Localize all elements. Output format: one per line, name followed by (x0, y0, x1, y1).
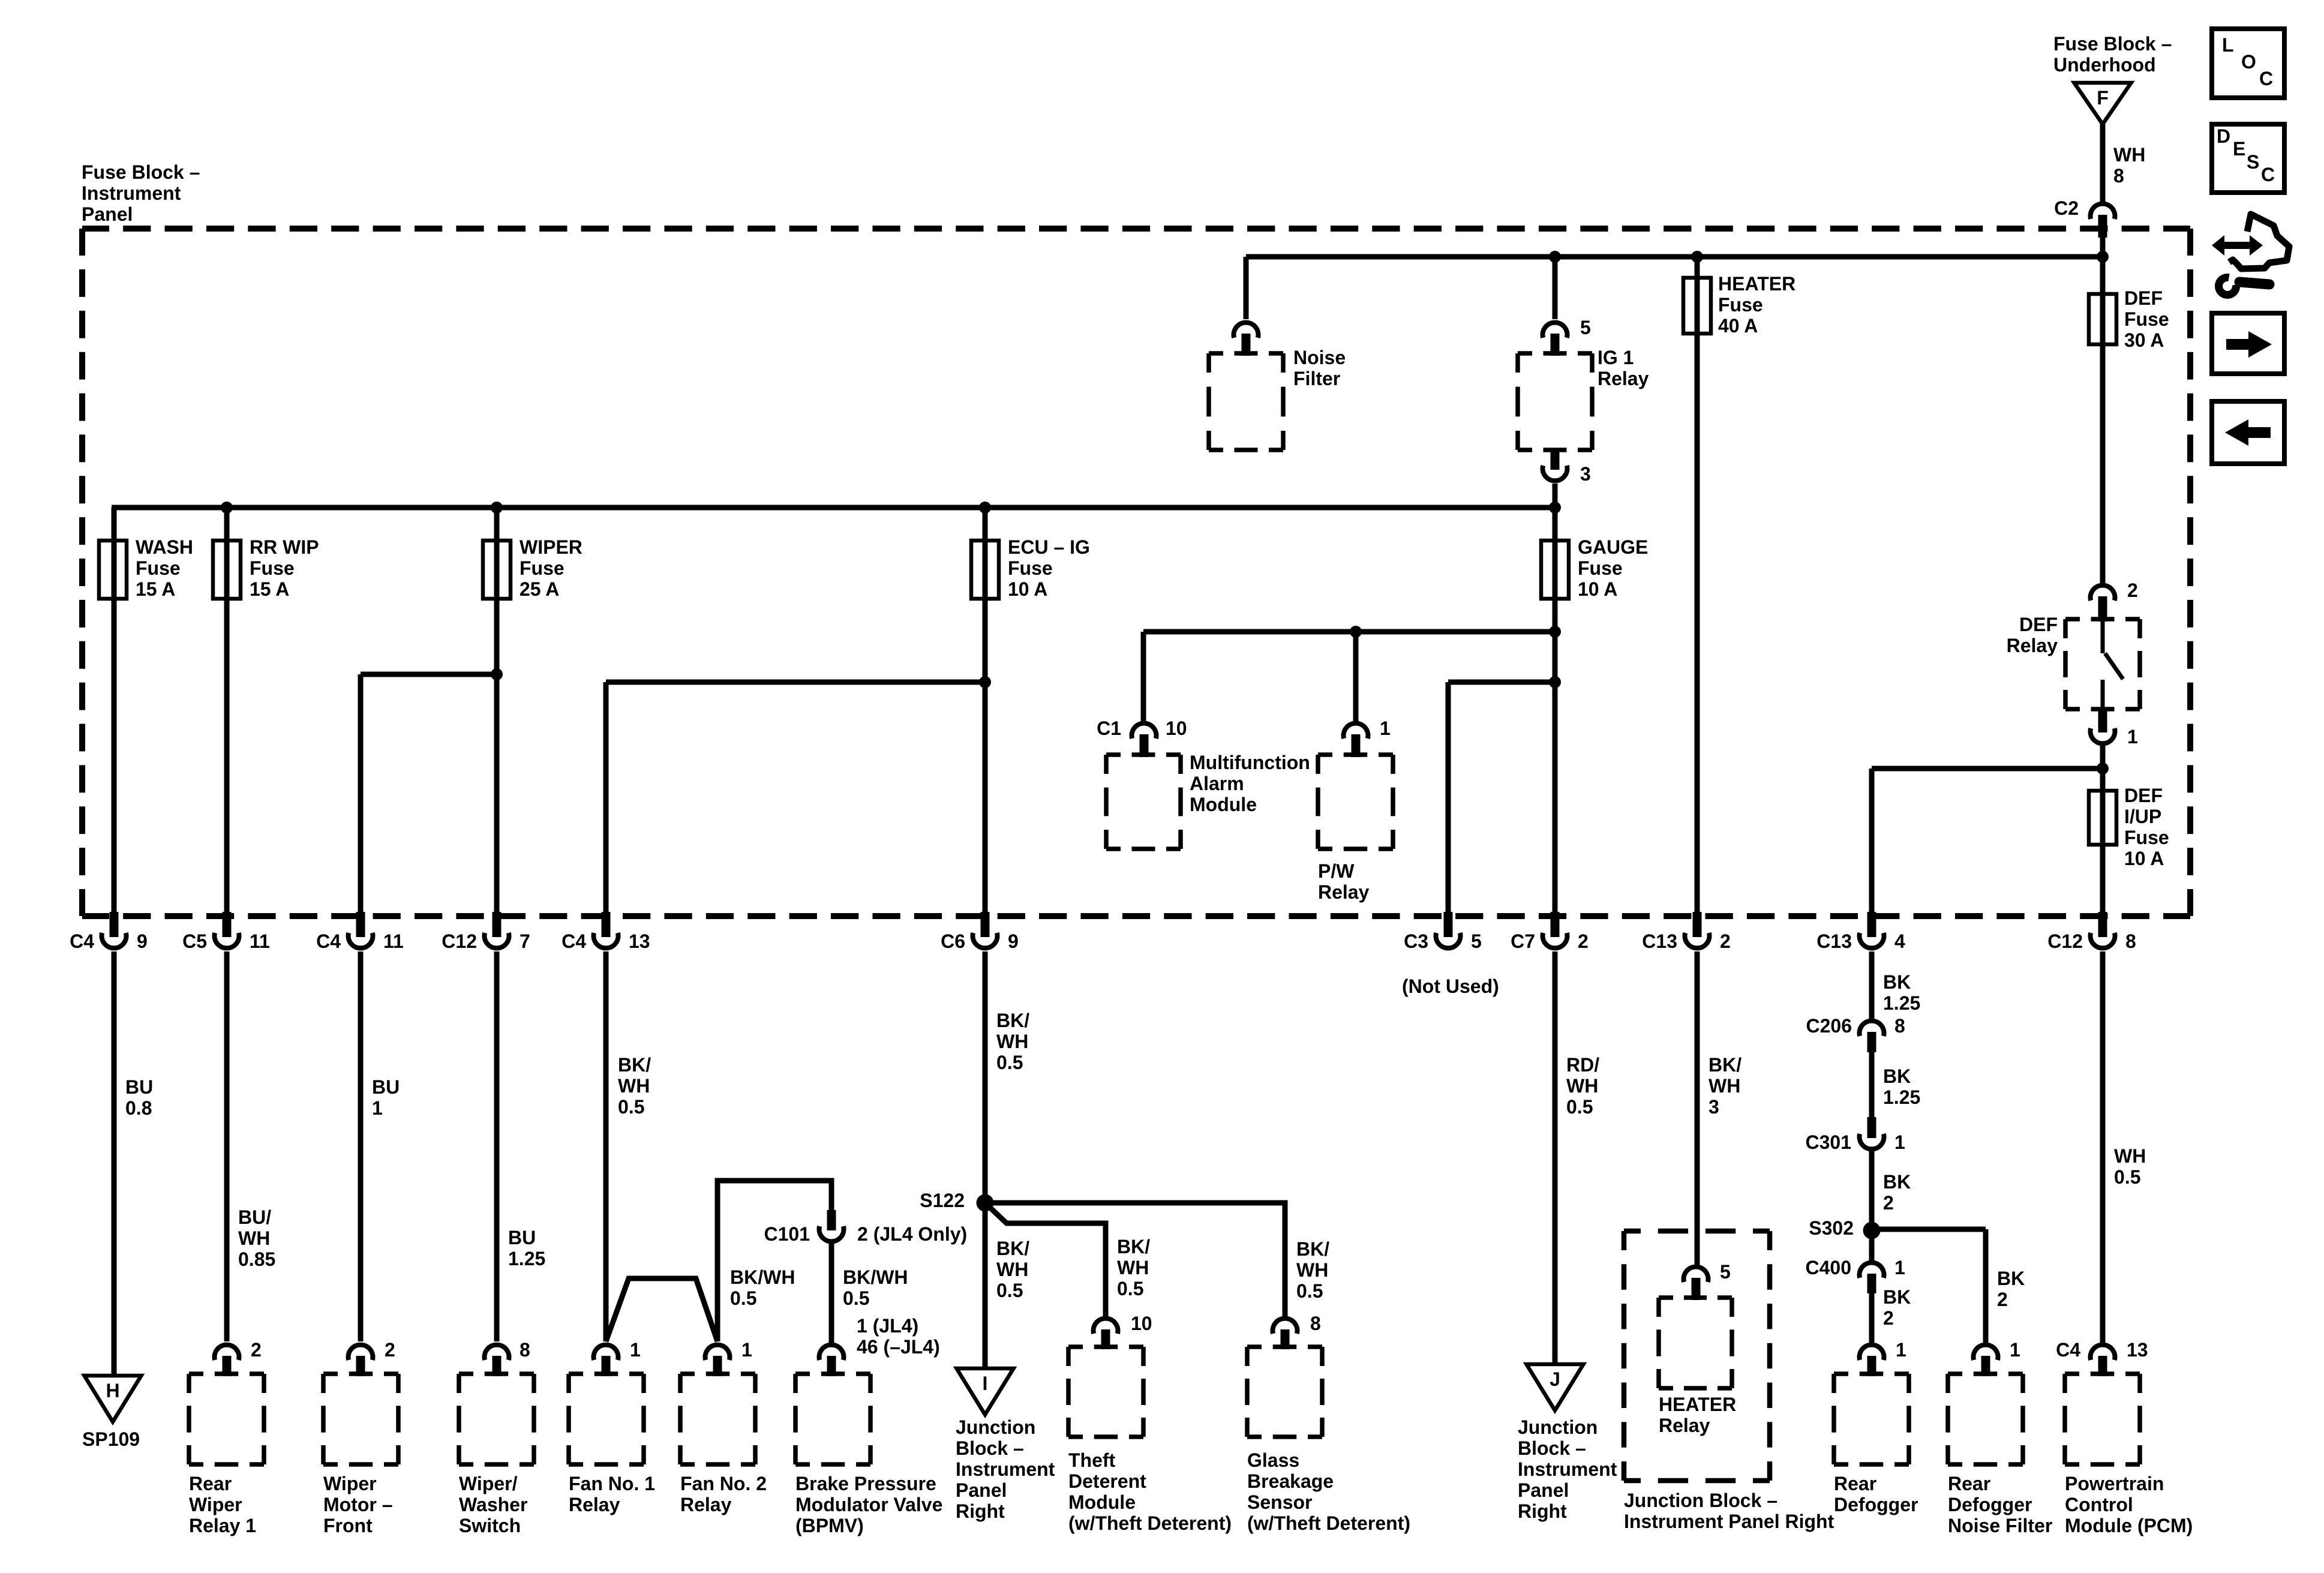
svg-text:0.5: 0.5 (730, 1287, 756, 1309)
svg-text:Multifunction: Multifunction (1190, 752, 1310, 773)
svg-text:15 A: 15 A (250, 578, 289, 600)
svg-text:Control: Control (2065, 1494, 2133, 1515)
svg-text:Fuse: Fuse (2124, 308, 2169, 330)
svg-text:8: 8 (1310, 1313, 1321, 1334)
svg-text:HEATER: HEATER (1659, 1394, 1736, 1415)
svg-text:DEF: DEF (2124, 785, 2163, 806)
svg-text:1: 1 (2127, 726, 2138, 748)
svg-text:S302: S302 (1809, 1217, 1854, 1239)
svg-text:Relay: Relay (1318, 881, 1370, 903)
svg-text:Washer: Washer (459, 1494, 527, 1515)
svg-text:2: 2 (1578, 930, 1589, 952)
svg-text:WH: WH (2113, 144, 2145, 166)
svg-text:Panel: Panel (956, 1479, 1007, 1501)
svg-text:BK/: BK/ (996, 1010, 1029, 1031)
svg-text:WH: WH (1709, 1075, 1740, 1097)
svg-text:Module: Module (1190, 794, 1257, 815)
svg-text:1: 1 (1896, 1339, 1906, 1361)
svg-text:Front: Front (323, 1515, 373, 1536)
svg-text:BK/: BK/ (996, 1238, 1029, 1259)
svg-text:2 (JL4 Only): 2 (JL4 Only) (857, 1223, 967, 1245)
svg-text:Relay: Relay (1598, 368, 1649, 389)
svg-text:0.5: 0.5 (2114, 1166, 2140, 1188)
svg-text:1 (JL4): 1 (JL4) (857, 1315, 918, 1337)
svg-text:Instrument: Instrument (1518, 1458, 1617, 1480)
svg-text:Junction Block –: Junction Block – (1624, 1490, 1777, 1511)
svg-text:WH: WH (2114, 1145, 2146, 1167)
svg-text:Right: Right (956, 1500, 1005, 1522)
svg-text:2: 2 (1720, 930, 1731, 952)
svg-text:1.25: 1.25 (508, 1248, 545, 1269)
svg-text:(Not Used): (Not Used) (1402, 975, 1499, 997)
svg-text:C1: C1 (1097, 718, 1121, 739)
svg-text:S: S (2247, 151, 2259, 173)
svg-text:Relay: Relay (1659, 1415, 1710, 1436)
svg-text:C: C (2261, 164, 2275, 185)
svg-text:WH: WH (1566, 1075, 1598, 1097)
svg-text:Fuse: Fuse (136, 557, 181, 579)
svg-text:Relay: Relay (680, 1494, 732, 1515)
svg-text:Defogger: Defogger (1948, 1494, 2032, 1515)
svg-text:WH: WH (996, 1031, 1028, 1052)
svg-text:Fuse Block –: Fuse Block – (2053, 33, 2172, 55)
svg-text:HEATER: HEATER (1718, 273, 1795, 295)
svg-text:Powertrain: Powertrain (2065, 1473, 2164, 1494)
svg-text:C13: C13 (1642, 930, 1677, 952)
svg-text:C5: C5 (182, 930, 207, 952)
svg-text:Theft: Theft (1068, 1449, 1116, 1471)
svg-text:Underhood: Underhood (2053, 54, 2156, 76)
svg-text:2: 2 (1883, 1307, 1894, 1329)
svg-text:RD/: RD/ (1566, 1054, 1599, 1076)
svg-text:BK/: BK/ (1709, 1054, 1742, 1076)
svg-text:30 A: 30 A (2124, 329, 2164, 351)
svg-text:I: I (983, 1373, 988, 1394)
svg-text:0.5: 0.5 (1566, 1096, 1593, 1118)
svg-text:3: 3 (1580, 463, 1591, 485)
svg-text:C301: C301 (1806, 1131, 1852, 1153)
svg-text:S122: S122 (920, 1190, 965, 1211)
svg-text:2: 2 (1997, 1289, 2008, 1310)
svg-text:RR WIP: RR WIP (250, 536, 319, 558)
svg-text:C2: C2 (2054, 197, 2079, 219)
svg-text:BK/WH: BK/WH (730, 1266, 795, 1288)
svg-text:Motor –: Motor – (323, 1494, 393, 1515)
svg-text:Relay 1: Relay 1 (189, 1515, 256, 1536)
svg-text:Brake Pressure: Brake Pressure (795, 1473, 936, 1494)
svg-text:0.5: 0.5 (996, 1052, 1023, 1073)
svg-text:Instrument Panel Right: Instrument Panel Right (1624, 1511, 1834, 1532)
svg-text:C12: C12 (442, 930, 477, 952)
svg-text:Fuse: Fuse (250, 557, 295, 579)
svg-text:Block –: Block – (956, 1437, 1024, 1459)
svg-text:WH: WH (1296, 1259, 1328, 1281)
svg-text:5: 5 (1720, 1261, 1731, 1283)
svg-text:40 A: 40 A (1718, 315, 1758, 337)
svg-text:Panel: Panel (1518, 1479, 1569, 1501)
svg-text:1: 1 (1894, 1131, 1905, 1153)
svg-text:2: 2 (2127, 580, 2138, 601)
svg-text:0.5: 0.5 (1296, 1280, 1323, 1302)
svg-text:ECU – IG: ECU – IG (1008, 536, 1090, 558)
svg-text:2: 2 (251, 1339, 262, 1361)
svg-text:O: O (2241, 51, 2256, 73)
svg-text:Fuse Block –: Fuse Block – (82, 161, 200, 183)
svg-text:BU: BU (125, 1076, 153, 1098)
svg-text:Junction: Junction (1518, 1416, 1598, 1438)
svg-text:BK/: BK/ (1296, 1238, 1329, 1260)
svg-text:Modulator Valve: Modulator Valve (795, 1494, 942, 1515)
svg-text:BK: BK (1997, 1268, 2025, 1289)
svg-text:Fuse: Fuse (1578, 557, 1623, 579)
svg-text:10: 10 (1131, 1313, 1152, 1334)
svg-text:C7: C7 (1511, 930, 1535, 952)
svg-text:Instrument: Instrument (82, 182, 181, 204)
svg-text:I/UP: I/UP (2124, 806, 2161, 827)
svg-text:BK: BK (1883, 1286, 1911, 1308)
svg-text:9: 9 (137, 930, 148, 952)
svg-text:8: 8 (2125, 930, 2136, 952)
svg-text:Defogger: Defogger (1834, 1494, 1918, 1515)
svg-text:BU/: BU/ (238, 1206, 271, 1228)
svg-text:C206: C206 (1806, 1015, 1852, 1037)
svg-text:WH: WH (996, 1259, 1028, 1280)
svg-text:BK/: BK/ (618, 1054, 651, 1076)
svg-text:C4: C4 (316, 930, 341, 952)
svg-text:C101: C101 (764, 1223, 810, 1245)
svg-text:11: 11 (383, 930, 404, 952)
svg-text:10: 10 (1166, 718, 1187, 739)
svg-text:E: E (2233, 138, 2245, 160)
svg-text:4: 4 (1894, 930, 1905, 952)
svg-text:C4: C4 (70, 930, 94, 952)
svg-text:8: 8 (1894, 1015, 1905, 1037)
svg-text:11: 11 (250, 930, 270, 952)
svg-text:0.85: 0.85 (238, 1248, 275, 1270)
svg-text:Relay: Relay (2007, 635, 2058, 656)
svg-text:Rear: Rear (1834, 1473, 1876, 1494)
svg-text:BK: BK (1883, 971, 1911, 993)
svg-text:Fuse: Fuse (1008, 557, 1053, 579)
svg-text:8: 8 (2113, 165, 2124, 187)
svg-text:Panel: Panel (82, 203, 133, 225)
svg-text:0.5: 0.5 (618, 1096, 644, 1118)
svg-text:WIPER: WIPER (520, 536, 582, 558)
svg-text:F: F (2097, 87, 2109, 109)
svg-text:Fuse: Fuse (1718, 294, 1763, 316)
svg-text:2: 2 (385, 1339, 395, 1361)
svg-text:5: 5 (1471, 930, 1482, 952)
svg-text:Breakage: Breakage (1247, 1470, 1334, 1492)
svg-text:C12: C12 (2047, 930, 2083, 952)
svg-text:BK: BK (1883, 1065, 1911, 1087)
svg-text:Switch: Switch (459, 1515, 521, 1536)
svg-text:(w/Theft Deterent): (w/Theft Deterent) (1068, 1512, 1232, 1534)
svg-text:Instrument: Instrument (956, 1458, 1055, 1480)
svg-text:Fan No. 2: Fan No. 2 (680, 1473, 767, 1494)
svg-text:IG 1: IG 1 (1598, 347, 1634, 368)
svg-text:Deterent: Deterent (1068, 1470, 1146, 1492)
svg-text:WH: WH (238, 1227, 270, 1249)
svg-text:C4: C4 (2056, 1339, 2080, 1361)
svg-text:Rear: Rear (189, 1473, 232, 1494)
svg-text:Right: Right (1518, 1500, 1567, 1522)
svg-text:Sensor: Sensor (1247, 1491, 1312, 1513)
svg-text:BK/: BK/ (1117, 1236, 1150, 1257)
svg-text:GAUGE: GAUGE (1578, 536, 1648, 558)
svg-text:1.25: 1.25 (1883, 992, 1920, 1014)
svg-text:0.5: 0.5 (996, 1280, 1023, 1301)
svg-text:C: C (2259, 68, 2273, 89)
svg-text:1: 1 (1380, 718, 1391, 739)
svg-text:Relay: Relay (569, 1494, 620, 1515)
svg-text:8: 8 (520, 1339, 530, 1361)
svg-text:L: L (2222, 34, 2234, 56)
svg-text:13: 13 (2127, 1339, 2148, 1361)
svg-text:3: 3 (1709, 1096, 1719, 1118)
svg-text:15 A: 15 A (136, 578, 175, 600)
svg-text:10 A: 10 A (1578, 578, 1617, 600)
svg-text:2: 2 (1883, 1192, 1894, 1214)
svg-text:Fuse: Fuse (520, 557, 565, 579)
svg-text:1: 1 (630, 1339, 641, 1361)
svg-text:H: H (106, 1380, 119, 1401)
svg-text:Fuse: Fuse (2124, 827, 2169, 848)
svg-text:Filter: Filter (1293, 368, 1340, 389)
svg-text:WH: WH (1117, 1257, 1149, 1278)
svg-text:Wiper: Wiper (189, 1494, 242, 1515)
svg-text:9: 9 (1008, 930, 1019, 952)
svg-text:Wiper: Wiper (323, 1473, 377, 1494)
svg-text:0.8: 0.8 (125, 1097, 152, 1119)
svg-text:Alarm: Alarm (1190, 773, 1244, 794)
svg-text:Fan No. 1: Fan No. 1 (569, 1473, 655, 1494)
svg-text:BU: BU (372, 1076, 400, 1098)
svg-text:46 (–JL4): 46 (–JL4) (857, 1336, 940, 1358)
svg-text:1.25: 1.25 (1883, 1086, 1920, 1108)
svg-text:Rear: Rear (1948, 1473, 1990, 1494)
svg-text:10 A: 10 A (1008, 578, 1047, 600)
svg-text:D: D (2217, 125, 2230, 147)
svg-text:0.5: 0.5 (1117, 1278, 1143, 1299)
svg-text:DEF: DEF (2124, 287, 2163, 309)
svg-text:C6: C6 (941, 930, 965, 952)
svg-text:C13: C13 (1816, 930, 1852, 952)
svg-text:Noise Filter: Noise Filter (1948, 1515, 2052, 1536)
svg-text:1: 1 (372, 1097, 383, 1119)
svg-text:7: 7 (520, 930, 530, 952)
svg-text:DEF: DEF (2019, 614, 2058, 635)
svg-text:C400: C400 (1806, 1257, 1852, 1278)
svg-text:J: J (1550, 1368, 1560, 1390)
svg-text:(w/Theft Deterent): (w/Theft Deterent) (1247, 1512, 1410, 1534)
svg-text:BK/WH: BK/WH (843, 1266, 908, 1288)
svg-text:C4: C4 (562, 930, 586, 952)
svg-text:Glass: Glass (1247, 1449, 1299, 1471)
svg-text:(BPMV): (BPMV) (795, 1515, 864, 1536)
svg-text:WASH: WASH (136, 536, 193, 558)
svg-text:WH: WH (618, 1075, 650, 1097)
svg-text:1: 1 (2010, 1339, 2020, 1361)
svg-text:Module (PCM): Module (PCM) (2065, 1515, 2193, 1536)
svg-text:0.5: 0.5 (843, 1287, 869, 1309)
svg-text:25 A: 25 A (520, 578, 559, 600)
svg-text:13: 13 (629, 930, 650, 952)
svg-text:P/W: P/W (1318, 860, 1355, 882)
svg-text:Module: Module (1068, 1491, 1136, 1513)
svg-text:SP109: SP109 (82, 1428, 140, 1450)
svg-text:Junction: Junction (956, 1416, 1035, 1438)
svg-text:5: 5 (1580, 317, 1591, 338)
svg-text:Wiper/: Wiper/ (459, 1473, 518, 1494)
svg-text:BK: BK (1883, 1171, 1911, 1193)
svg-text:1: 1 (741, 1339, 752, 1361)
svg-text:10 A: 10 A (2124, 848, 2164, 869)
svg-text:Noise: Noise (1293, 347, 1346, 368)
svg-text:1: 1 (1894, 1257, 1905, 1278)
svg-text:Block –: Block – (1518, 1437, 1586, 1459)
svg-text:C3: C3 (1404, 930, 1428, 952)
svg-text:BU: BU (508, 1227, 536, 1248)
